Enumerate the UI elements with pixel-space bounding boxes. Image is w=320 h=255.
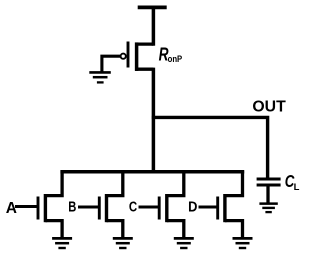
label CL [285, 171, 300, 193]
NMOS transistor C : source lead to ground [167, 221, 184, 239]
NMOS transistor A : drain lead to bus [45, 171, 62, 196]
NMOS transistor C : drain lead to bus [167, 171, 184, 196]
svg-text:onP: onP [168, 54, 183, 64]
NMOS transistor C : gate bar [158, 197, 161, 220]
ground symbol below NMOS B [113, 238, 133, 248]
svg-text:A: A [6, 200, 17, 217]
wire capacitor to ground [266, 185, 269, 204]
NMOS transistor B : drain lead to bus [107, 171, 123, 196]
NMOS transistor A : gate wire [15, 205, 38, 208]
wire output node to capacitor (OUT net) [152, 117, 268, 179]
wire PMOS drain down to output node and NMOS bus [152, 68, 156, 174]
svg-text:L: L [294, 182, 300, 193]
wire drain bus joining the four NMOS drains [60, 170, 244, 174]
NMOS transistor A : channel bar [44, 194, 47, 222]
NMOS transistor A : gate bar [37, 197, 40, 220]
wire PMOS gate to ground [102, 56, 120, 72]
NMOS transistor B : gate wire [78, 205, 99, 208]
NMOS transistor D : channel bar [223, 194, 226, 222]
svg-text:D: D [188, 199, 197, 215]
svg-text:C: C [129, 199, 138, 215]
PMOS transistor RonP : channel bar [135, 42, 139, 71]
NMOS transistor A : source lead to ground [45, 221, 62, 239]
capacitor CL : top plate [257, 178, 281, 181]
ground symbol below capacitor [259, 204, 277, 213]
NMOS transistor B : gate bar [98, 197, 101, 220]
NMOS transistor B : channel bar [105, 194, 108, 222]
PMOS transistor RonP : source lead [135, 42, 153, 45]
ground symbol below NMOS C [174, 238, 194, 248]
PMOS transistor RonP : gate bubble [121, 54, 126, 59]
NMOS transistor D : gate bar [216, 197, 219, 220]
NMOS transistor C : channel bar [165, 194, 168, 222]
NMOS transistor D : source lead to ground [225, 221, 243, 239]
ground symbol below NMOS A [52, 238, 72, 248]
NMOS transistor D : drain lead to bus [225, 171, 243, 196]
svg-text:B: B [68, 200, 76, 216]
ground symbol at PMOS gate [89, 72, 111, 82]
capacitor CL : bottom plate [257, 184, 281, 187]
wire VDD rail to PMOS source [152, 7, 156, 45]
label RonP [159, 45, 183, 65]
svg-text:OUT: OUT [252, 99, 286, 116]
NMOS transistor C : gate wire [139, 205, 160, 208]
ground symbol below NMOS D [233, 238, 253, 248]
NMOS transistor D : gate wire [199, 205, 218, 208]
NMOS transistor B : source lead to ground [107, 221, 123, 239]
PMOS transistor RonP : gate bar [127, 42, 130, 68]
VDD power rail bar [138, 6, 167, 10]
PMOS transistor RonP : drain lead [135, 68, 153, 71]
